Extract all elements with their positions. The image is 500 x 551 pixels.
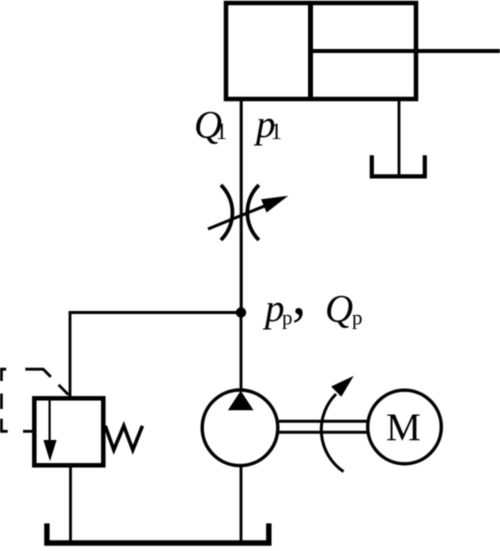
- svg-text:,: ,: [292, 264, 306, 327]
- svg-text:M: M: [386, 406, 421, 449]
- svg-text:p: p: [352, 306, 363, 330]
- svg-text:p: p: [282, 306, 293, 330]
- svg-text:1: 1: [216, 119, 228, 144]
- svg-text:1: 1: [271, 119, 283, 144]
- svg-text:Q: Q: [325, 288, 353, 331]
